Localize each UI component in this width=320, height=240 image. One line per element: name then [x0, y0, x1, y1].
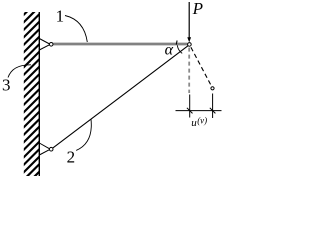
- bar 1 (horizontal gray member): [53, 43, 187, 46]
- dimension tick right: [210, 108, 216, 114]
- bar 2 (diagonal member): [53, 46, 188, 148]
- displaced joint circle: [211, 87, 214, 90]
- svg-text:(v): (v): [197, 116, 207, 126]
- force P arrowhead: [187, 37, 191, 42]
- dimension line: [176, 110, 222, 112]
- force P line: [188, 2, 190, 38]
- bottom pin support links: [39, 143, 49, 149]
- svg-text:α: α: [165, 41, 174, 58]
- svg-text:1: 1: [56, 7, 65, 26]
- top pin support links: [39, 39, 49, 45]
- dashed displaced-bar line (black): [191, 47, 212, 86]
- extension line left: [189, 95, 191, 118]
- bottom pin circle: [49, 147, 53, 151]
- top pin circle: [49, 43, 53, 47]
- leader for 1: [65, 16, 87, 43]
- dashed vertical displacement line (gray): [188, 48, 190, 93]
- angle arc alpha: [177, 45, 182, 53]
- leader for 2: [76, 119, 91, 150]
- wall face line: [38, 12, 40, 176]
- joint circle: [188, 43, 192, 47]
- dimension tick left: [187, 108, 193, 114]
- leader for 3: [8, 65, 31, 78]
- svg-text:2: 2: [67, 147, 76, 166]
- svg-text:P: P: [192, 0, 203, 18]
- alpha prime tick: [175, 41, 178, 45]
- svg-text:3: 3: [2, 76, 11, 95]
- extension line right: [212, 94, 214, 119]
